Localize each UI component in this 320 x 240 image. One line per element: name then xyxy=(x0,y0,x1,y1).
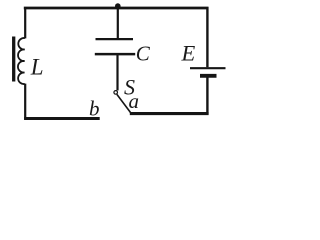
svg-text:b: b xyxy=(89,97,100,121)
svg-text:C: C xyxy=(136,41,151,65)
svg-text:L: L xyxy=(30,55,44,80)
svg-text:a: a xyxy=(129,89,140,113)
svg-text:E: E xyxy=(181,41,196,66)
